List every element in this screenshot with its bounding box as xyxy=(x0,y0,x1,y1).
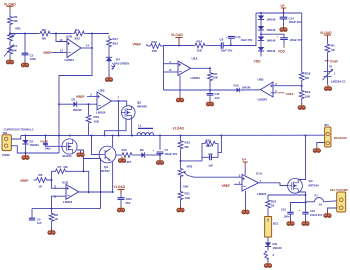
svg-text:+: + xyxy=(226,35,228,39)
ground xyxy=(264,262,271,268)
svg-text:U+: U+ xyxy=(281,4,285,8)
wire xyxy=(317,143,325,147)
svg-text:IRF640: IRF640 xyxy=(137,105,147,109)
wire xyxy=(260,20,262,27)
wire xyxy=(108,50,110,57)
wire xyxy=(9,11,11,15)
net VREF xyxy=(43,51,52,55)
wire node A xyxy=(10,33,38,35)
svg-text:1N4148: 1N4148 xyxy=(273,246,283,250)
wire xyxy=(9,26,11,35)
svg-text:100uF 25V: 100uF 25V xyxy=(310,214,323,217)
wire xyxy=(267,260,269,262)
svg-text:100n: 100n xyxy=(45,147,51,151)
potentiometer VR1 xyxy=(8,27,22,43)
resistor R8 xyxy=(49,209,59,226)
wire xyxy=(164,45,194,47)
svg-text:1nF: 1nF xyxy=(37,221,42,225)
svg-text:10K: 10K xyxy=(183,185,189,189)
wire xyxy=(159,136,161,151)
net VDD xyxy=(254,60,262,64)
svg-text:1A: 1A xyxy=(319,202,323,206)
ground xyxy=(287,220,294,226)
power VLOAD top-left xyxy=(4,2,16,10)
wire xyxy=(267,210,269,217)
power VLOAD xyxy=(173,127,185,131)
wire xyxy=(52,33,71,35)
wire xyxy=(24,34,26,54)
svg-text:C16: C16 xyxy=(310,209,315,213)
ground xyxy=(324,85,331,91)
svg-text:VLOAD: VLOAD xyxy=(171,33,183,37)
svg-text:2K2: 2K2 xyxy=(206,144,211,148)
svg-text:F1: F1 xyxy=(315,194,319,198)
ground xyxy=(242,208,249,214)
capacitor C7 xyxy=(153,148,178,156)
wire xyxy=(324,201,337,202)
svg-text:R16: R16 xyxy=(94,115,100,119)
wire xyxy=(327,77,329,85)
svg-text:4K7: 4K7 xyxy=(126,160,132,164)
svg-text:10K: 10K xyxy=(152,49,158,53)
wire xyxy=(180,182,182,190)
wire base xyxy=(92,136,100,155)
net VREF xyxy=(222,184,231,188)
ground xyxy=(6,58,13,64)
wire xyxy=(164,71,179,73)
svg-text:L1: L1 xyxy=(138,124,142,128)
wire xyxy=(328,208,337,212)
wire xyxy=(164,63,179,65)
resistor R19 xyxy=(299,89,311,100)
resistor R2 xyxy=(8,15,19,26)
net VREF xyxy=(273,92,277,94)
ground xyxy=(22,154,29,160)
svg-text:VREF: VREF xyxy=(20,179,29,183)
svg-text:VR1: VR1 xyxy=(15,27,21,31)
wire xyxy=(47,179,66,188)
wire Q2 right leg xyxy=(131,119,133,136)
svg-text:R1: R1 xyxy=(331,44,335,48)
wire xyxy=(209,81,211,92)
svg-text:1N4148: 1N4148 xyxy=(267,40,276,43)
transistor Q2 xyxy=(122,101,148,120)
svg-text:100uF 25V: 100uF 25V xyxy=(165,152,178,156)
svg-text:1N4148: 1N4148 xyxy=(267,19,276,22)
wire source xyxy=(300,192,307,212)
resistor R22 xyxy=(266,199,277,210)
wire xyxy=(290,214,292,220)
wire xyxy=(202,156,210,158)
wire rail xyxy=(58,34,92,136)
wire xyxy=(260,51,262,57)
wire xyxy=(9,56,11,58)
svg-text:100n: 100n xyxy=(30,57,37,61)
buzzer BZ1 xyxy=(265,217,279,238)
svg-text:10uF 25V: 10uF 25V xyxy=(241,38,253,42)
wire xyxy=(267,247,269,251)
capacitor C16 xyxy=(299,208,323,217)
svg-text:VLOAD: VLOAD xyxy=(114,185,126,189)
svg-text:C5: C5 xyxy=(37,217,41,221)
LED D4 xyxy=(106,57,129,69)
wire xyxy=(273,85,303,87)
svg-text:R18: R18 xyxy=(305,72,311,76)
op-amp U2B xyxy=(96,89,112,115)
transistor Q3 xyxy=(99,146,116,163)
net VDD xyxy=(278,45,286,54)
svg-text:Z: Z xyxy=(273,253,275,257)
svg-text:R10: R10 xyxy=(152,40,158,44)
wire source xyxy=(77,150,84,171)
power VLOAD xyxy=(114,185,126,194)
svg-text:VREF: VREF xyxy=(133,43,142,47)
ground xyxy=(118,157,125,163)
svg-text:VREF: VREF xyxy=(76,95,85,99)
svg-text:C10: C10 xyxy=(208,153,213,156)
wire xyxy=(267,237,269,243)
wire rail to R18 xyxy=(301,13,303,70)
wire xyxy=(301,100,303,104)
capacitor C9 xyxy=(220,37,233,52)
svg-text:U2B: U2B xyxy=(99,89,106,93)
svg-text:LM324: LM324 xyxy=(257,192,267,196)
wire xyxy=(146,45,148,47)
resistor R11 xyxy=(208,72,219,81)
resistor R7 xyxy=(52,165,70,174)
op-amp U1B xyxy=(62,181,79,204)
resistor R9 xyxy=(36,173,47,189)
power VLOAD xyxy=(320,31,332,40)
ground xyxy=(77,151,84,157)
wire xyxy=(11,136,20,140)
svg-text:U2D: U2D xyxy=(66,35,73,39)
svg-text:BUZ11: BUZ11 xyxy=(63,154,73,158)
svg-text:VLOAD: VLOAD xyxy=(320,31,332,35)
wire emitter xyxy=(112,162,114,192)
wire xyxy=(88,33,110,35)
wire xyxy=(56,34,67,42)
wire xyxy=(25,144,27,154)
wire xyxy=(267,195,269,199)
net VREF xyxy=(76,95,85,99)
svg-text:1K: 1K xyxy=(271,204,275,208)
wire xyxy=(181,144,203,161)
wire xyxy=(260,30,262,37)
svg-text:C14: C14 xyxy=(289,17,295,21)
svg-text:+: + xyxy=(299,208,301,212)
wire xyxy=(245,191,247,208)
thermistor TH1 xyxy=(4,44,18,57)
svg-text:R12: R12 xyxy=(185,141,191,145)
svg-text:IRFZ44: IRFZ44 xyxy=(309,184,319,188)
svg-text:C15: C15 xyxy=(281,208,286,212)
svg-text:1nF: 1nF xyxy=(208,163,213,167)
wire xyxy=(24,55,26,61)
diode D3 xyxy=(72,98,83,113)
wire xyxy=(87,95,97,97)
op-amp U2A xyxy=(178,57,200,80)
wire xyxy=(283,19,285,26)
wire xyxy=(159,154,161,159)
net TEMP xyxy=(325,59,339,63)
svg-text:D4: D4 xyxy=(116,57,120,61)
svg-text:10K: 10K xyxy=(185,196,191,200)
wire main bus xyxy=(21,134,325,136)
svg-text:1N4004: 1N4004 xyxy=(30,143,40,147)
wire xyxy=(327,54,329,71)
svg-text:VDD: VDD xyxy=(254,60,262,64)
svg-text:D10: D10 xyxy=(234,84,240,88)
wire xyxy=(120,194,122,198)
wire xyxy=(207,45,221,47)
svg-text:LM324: LM324 xyxy=(258,98,268,102)
svg-text:R20: R20 xyxy=(206,139,211,143)
wire xyxy=(180,201,182,206)
svg-text:R15: R15 xyxy=(122,148,128,152)
power U+ xyxy=(242,158,248,176)
wire xyxy=(241,89,261,91)
wire xyxy=(120,199,122,206)
capacitor C2 xyxy=(22,53,37,61)
net VSUP xyxy=(40,136,51,151)
resistor R16 xyxy=(86,112,100,126)
svg-text:R17: R17 xyxy=(113,37,119,41)
svg-text:V1: V1 xyxy=(329,65,333,69)
wire output xyxy=(79,191,114,193)
wire xyxy=(51,171,53,180)
svg-text:MEASURE: MEASURE xyxy=(334,136,347,140)
connector JP1 xyxy=(324,123,347,147)
capacitor C5 xyxy=(29,217,42,225)
svg-text:100uF 25V: 100uF 25V xyxy=(289,20,302,24)
svg-text:VLOAD: VLOAD xyxy=(173,127,185,131)
ground xyxy=(280,26,287,32)
diode D8 xyxy=(258,47,276,53)
net VREF xyxy=(133,43,142,47)
svg-text:10K: 10K xyxy=(213,76,219,80)
svg-text:U+: U+ xyxy=(242,158,246,162)
ground xyxy=(177,206,184,212)
capacitor C6 xyxy=(118,197,133,205)
wire xyxy=(301,83,303,90)
wire xyxy=(283,13,285,17)
wire xyxy=(34,179,37,181)
resistor R23 xyxy=(264,251,275,260)
svg-text:10nF 25V: 10nF 25V xyxy=(221,49,233,53)
svg-text:D2: D2 xyxy=(30,140,34,144)
op-amp U2D xyxy=(65,35,82,63)
capacitor C12 xyxy=(277,35,303,43)
wire xyxy=(305,214,307,220)
svg-text:C7: C7 xyxy=(165,148,169,152)
svg-text:BC547: BC547 xyxy=(101,169,111,173)
svg-text:10K: 10K xyxy=(94,120,100,124)
wire xyxy=(211,144,218,158)
wire rail U+ xyxy=(256,12,302,14)
wire xyxy=(11,146,59,153)
svg-text:+: + xyxy=(153,149,155,153)
wire drop to bus xyxy=(118,101,120,136)
wire xyxy=(52,52,68,54)
capacitor C11 xyxy=(207,92,220,100)
fuse F1 xyxy=(306,201,315,203)
ground xyxy=(117,206,124,212)
wire xyxy=(52,196,67,208)
wire collector xyxy=(112,136,114,148)
svg-text:R6: R6 xyxy=(42,28,46,32)
resistor R11b xyxy=(178,190,191,201)
svg-text:D3: D3 xyxy=(72,98,76,102)
svg-text:1N4148: 1N4148 xyxy=(242,87,251,90)
svg-text:RAD GREEN: RAD GREEN xyxy=(114,63,129,66)
wire rail xyxy=(162,46,165,91)
diode D10 xyxy=(234,84,252,93)
svg-text:U1B: U1B xyxy=(62,181,69,185)
wire wiper to U1A xyxy=(188,176,242,178)
svg-text:R9: R9 xyxy=(39,173,43,177)
wire xyxy=(84,159,101,209)
svg-text:10K: 10K xyxy=(12,48,18,52)
resistor R6 xyxy=(38,28,52,41)
svg-text:10K: 10K xyxy=(197,49,203,53)
svg-text:D11: D11 xyxy=(273,242,278,246)
capacitor C15 xyxy=(281,208,294,219)
diode D11 xyxy=(265,242,282,250)
svg-text:U5B: U5B xyxy=(258,78,265,82)
wire xyxy=(327,40,329,43)
wire xyxy=(108,61,110,75)
capacitor C14 xyxy=(226,35,253,45)
wire xyxy=(59,103,73,105)
ground xyxy=(298,104,305,110)
resistor R1 xyxy=(325,43,336,54)
svg-text:U1A: U1A xyxy=(256,171,263,175)
svg-text:C9: C9 xyxy=(220,37,224,41)
label COMPRESSOR TERMINALS xyxy=(4,128,34,132)
svg-text:Q4: Q4 xyxy=(309,179,313,183)
power U+ xyxy=(281,4,287,13)
wire xyxy=(9,43,11,44)
svg-text:2K2: 2K2 xyxy=(75,37,81,41)
svg-text:LM324: LM324 xyxy=(96,111,106,115)
svg-text:+: + xyxy=(277,35,279,39)
connector TB1 xyxy=(2,131,11,157)
svg-text:R4: R4 xyxy=(75,28,79,32)
svg-text:LM324: LM324 xyxy=(63,200,73,204)
resistor R10 xyxy=(148,40,163,53)
svg-text:BZ1: BZ1 xyxy=(273,222,279,226)
connector JP2 xyxy=(330,188,348,212)
net VREF xyxy=(20,179,29,183)
ground xyxy=(176,96,183,102)
resistor R18 xyxy=(299,70,310,83)
diode D7 xyxy=(258,37,276,43)
wire xyxy=(78,103,98,105)
svg-text:VREF: VREF xyxy=(222,184,231,188)
ground xyxy=(324,212,331,218)
svg-text:1uF: 1uF xyxy=(215,96,220,100)
wire feedback xyxy=(70,170,90,193)
wire xyxy=(234,183,242,185)
transistor Q4 xyxy=(288,178,319,193)
wire xyxy=(260,13,262,16)
ground xyxy=(48,229,55,235)
diode D9 xyxy=(140,148,145,158)
svg-text:100n: 100n xyxy=(284,215,290,219)
ground xyxy=(206,100,213,106)
wire xyxy=(283,40,285,46)
wire U1A out xyxy=(259,183,288,186)
ground xyxy=(21,61,28,67)
wire xyxy=(88,103,90,112)
inductor L1 xyxy=(137,124,154,136)
svg-text:VDD: VDD xyxy=(278,50,286,54)
wire U2B output xyxy=(112,100,127,106)
wire xyxy=(31,209,33,218)
svg-text:10K: 10K xyxy=(305,95,311,99)
svg-text:R19: R19 xyxy=(305,90,311,94)
svg-text:COMPRESSOR TERMINALS: COMPRESSOR TERMINALS xyxy=(4,128,34,132)
wire xyxy=(179,76,181,97)
svg-text:D9: D9 xyxy=(140,148,144,152)
resistor R12 xyxy=(178,139,190,151)
wire xyxy=(209,96,211,101)
diode D6 xyxy=(258,26,276,32)
wire drain xyxy=(300,136,306,180)
wire node xyxy=(268,194,306,196)
wire xyxy=(164,89,237,91)
svg-text:VREF: VREF xyxy=(43,51,52,55)
svg-text:LM324: LM324 xyxy=(191,76,201,80)
svg-text:VREF: VREF xyxy=(286,92,294,96)
svg-text:LM324: LM324 xyxy=(65,58,75,62)
wire xyxy=(260,41,262,48)
svg-text:CON2: CON2 xyxy=(2,153,10,157)
svg-text:R11: R11 xyxy=(185,192,191,196)
wire xyxy=(81,47,93,49)
temperature sensor V1 LM335 xyxy=(323,65,347,84)
resistor R4 xyxy=(71,28,88,41)
wire to C15 xyxy=(291,203,306,213)
op-amp U1A xyxy=(242,171,267,196)
ground xyxy=(302,220,309,226)
ground xyxy=(105,76,112,82)
diode D5 xyxy=(258,16,276,22)
wire rail down xyxy=(58,136,60,154)
svg-text:LM335A-C1: LM335A-C1 xyxy=(331,80,346,84)
potentiometer VR2 xyxy=(178,163,193,189)
wire xyxy=(223,13,256,46)
resistor R15 xyxy=(116,154,119,156)
svg-text:100uF 25V: 100uF 25V xyxy=(290,38,303,42)
svg-text:1N4148: 1N4148 xyxy=(267,50,276,53)
wire riser xyxy=(218,136,221,153)
wire xyxy=(88,126,90,136)
svg-text:R14: R14 xyxy=(197,40,203,44)
svg-text:VR2: VR2 xyxy=(187,165,193,169)
svg-text:1N4148: 1N4148 xyxy=(73,108,83,112)
svg-text:25V: 25V xyxy=(126,201,131,205)
op-amp U5B xyxy=(258,78,274,102)
ground xyxy=(156,159,163,165)
svg-text:TEMP: TEMP xyxy=(330,59,339,63)
svg-text:VSUP: VSUP xyxy=(40,139,48,143)
resistor R17 xyxy=(107,36,119,50)
wire xyxy=(135,154,141,156)
wire U2A output xyxy=(191,67,212,73)
svg-text:2K2: 2K2 xyxy=(113,42,119,46)
